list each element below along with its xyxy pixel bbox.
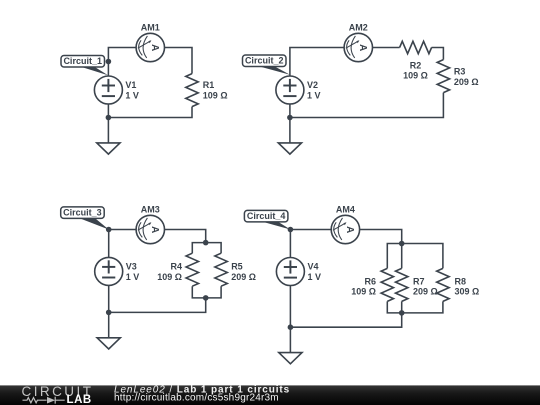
svg-text:109 Ω: 109 Ω (203, 90, 228, 100)
svg-text:1 V: 1 V (308, 272, 322, 282)
svg-text:R8: R8 (455, 276, 467, 286)
svg-text:LAB: LAB (67, 394, 92, 405)
svg-text:V1: V1 (125, 80, 136, 90)
svg-text:109 Ω: 109 Ω (351, 287, 376, 297)
svg-text:R6: R6 (364, 276, 376, 286)
svg-text:1 V: 1 V (125, 91, 139, 101)
svg-text:Circuit_1: Circuit_1 (63, 56, 102, 66)
svg-text:R5: R5 (231, 262, 243, 272)
svg-text:AM4: AM4 (336, 205, 355, 215)
svg-text:Circuit_3: Circuit_3 (63, 208, 102, 218)
svg-text:Circuit_2: Circuit_2 (245, 56, 284, 66)
svg-text:209 Ω: 209 Ω (413, 287, 438, 297)
svg-text:109 Ω: 109 Ω (157, 272, 182, 282)
svg-text:R2: R2 (410, 60, 422, 70)
svg-text:R1: R1 (203, 80, 215, 90)
svg-text:R3: R3 (454, 67, 466, 77)
svg-text:V3: V3 (126, 261, 137, 271)
svg-text:109 Ω: 109 Ω (403, 71, 428, 81)
svg-text:209 Ω: 209 Ω (231, 272, 256, 282)
svg-text:AM2: AM2 (349, 23, 368, 33)
svg-text:V4: V4 (308, 262, 319, 272)
svg-text:R4: R4 (170, 262, 182, 272)
svg-text:1 V: 1 V (126, 272, 140, 282)
svg-text:Circuit_4: Circuit_4 (247, 211, 286, 221)
svg-text:V2: V2 (307, 80, 318, 90)
svg-text:209 Ω: 209 Ω (454, 77, 479, 87)
svg-text:309 Ω: 309 Ω (455, 287, 480, 297)
svg-text:AM1: AM1 (141, 23, 160, 33)
svg-text:AM3: AM3 (141, 205, 160, 215)
svg-text:R7: R7 (413, 276, 425, 286)
svg-text:http://circuitlab.com/cs5sh9gr: http://circuitlab.com/cs5sh9gr24r3m (114, 393, 279, 404)
svg-text:1 V: 1 V (307, 91, 321, 101)
